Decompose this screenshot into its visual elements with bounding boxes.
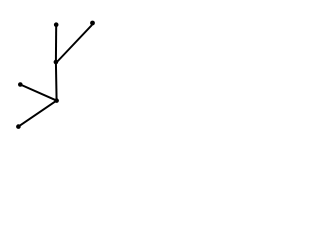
wire C-E bbox=[55, 62, 58, 101]
node F bbox=[16, 124, 21, 129]
wire B-C bbox=[56, 25, 92, 63]
node E bbox=[54, 98, 59, 103]
wire D-E bbox=[20, 85, 56, 101]
node D bbox=[18, 82, 23, 87]
wire A-C bbox=[55, 25, 57, 62]
node A bbox=[54, 22, 59, 27]
wire E-F bbox=[18, 101, 56, 127]
node B bbox=[90, 21, 95, 26]
node C bbox=[54, 60, 59, 65]
